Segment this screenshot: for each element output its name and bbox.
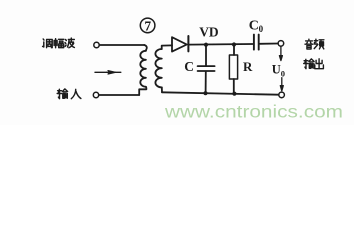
svg-text:0: 0 [259, 24, 264, 34]
输 [57, 89, 67, 99]
音 [305, 39, 313, 49]
top rail wire [189, 43, 252, 46]
label 调幅波 (AM wave) [43, 38, 75, 48]
capacitor C [198, 47, 215, 93]
capacitor C0 (series) [254, 35, 259, 50]
voltage arrow U0 lower segment with arrowhead [280, 78, 283, 91]
output terminal bottom (circle) [279, 92, 285, 98]
label 输出 (output) [304, 59, 324, 69]
diode VD [172, 36, 188, 52]
transformer marker circled 7 [140, 18, 155, 34]
transformer T1 secondary winding [162, 45, 172, 49]
svg-text:0: 0 [281, 68, 285, 78]
output terminal top (circle) [278, 41, 284, 47]
svg-text:C: C [249, 19, 259, 34]
input terminal top (circle) [94, 42, 99, 47]
波 [65, 38, 74, 48]
resistor R [229, 47, 237, 94]
junction node (R - bottom rail) [232, 92, 236, 96]
幅 [54, 39, 64, 48]
svg-text:U: U [272, 62, 281, 76]
label 音频 (audio) [305, 39, 324, 49]
svg-text:www.cntronics.com: www.cntronics.com [164, 102, 343, 122]
junction node (diode - C) [204, 43, 208, 47]
svg-text:R: R [243, 59, 253, 74]
调 [43, 39, 53, 48]
signal flow arrow [95, 71, 121, 74]
input terminal bottom (circle) [93, 92, 98, 97]
输 [304, 59, 314, 69]
voltage arrow U0 upper segment [279, 47, 282, 61]
label 输入 (input) [57, 89, 81, 99]
svg-text:VD: VD [199, 24, 219, 39]
transformer T1 primary winding [144, 45, 147, 51]
svg-text:7: 7 [144, 19, 151, 34]
wire: top input to transformer primary [99, 44, 144, 46]
出 [315, 59, 324, 69]
bottom rail wire [162, 92, 279, 94]
svg-text:C: C [184, 59, 194, 74]
label U0 [272, 62, 285, 78]
junction node (C - bottom rail) [203, 91, 207, 95]
wire: bottom input to transformer primary [99, 94, 139, 96]
入 [71, 89, 81, 98]
频 [314, 39, 324, 49]
label C0 [249, 19, 264, 34]
junction node (rail - R) [232, 42, 236, 46]
